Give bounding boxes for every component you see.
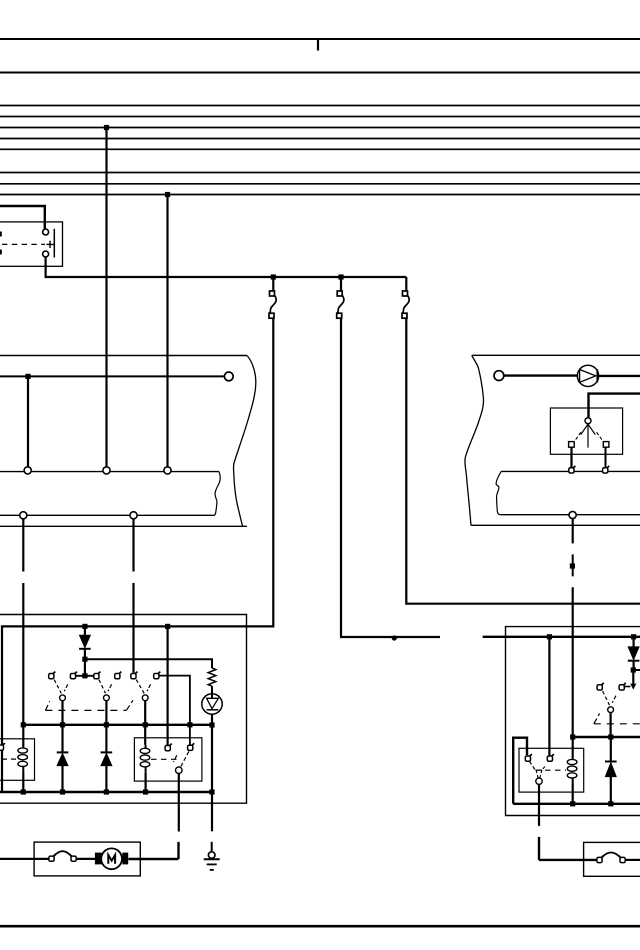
connector C1 inline bbox=[269, 291, 276, 318]
switch S1 arm dashes bbox=[54, 680, 61, 694]
box top edge bbox=[0, 355, 247, 357]
wire inside master switch bbox=[0, 375, 225, 377]
switch S4 arm dashes bbox=[603, 691, 610, 705]
diode D1 (down) bbox=[84, 626, 86, 635]
wire mid bus right bbox=[573, 736, 640, 738]
wire relay K4 pivot to motor right bbox=[538, 784, 540, 826]
node on wire at x=341 bbox=[338, 274, 343, 279]
wire bus mid bbox=[23, 724, 212, 726]
wire pivot S1 drop bbox=[61, 701, 63, 725]
wire pivot S2 drop bbox=[105, 701, 107, 725]
relay K3 contact 2 bbox=[188, 743, 195, 750]
circuit breaker CB1 bbox=[49, 854, 56, 861]
node on wire at x=273 bbox=[271, 274, 276, 279]
switch S3 arm dashes bbox=[136, 680, 144, 694]
box torn right edge bbox=[233, 356, 255, 527]
pin row 1 torn edge bbox=[496, 471, 501, 514]
wire feed to relay K1 bbox=[0, 206, 45, 229]
diode D5 (up) bbox=[610, 737, 612, 762]
door switch box (right, torn) bbox=[465, 355, 640, 525]
wire relay K3 pivot to motor bbox=[178, 773, 180, 831]
switch S3 contact left bbox=[131, 672, 138, 679]
relay K2 box bbox=[0, 739, 35, 781]
wire to diode circle bbox=[504, 374, 578, 376]
wire feed to key switch bbox=[589, 394, 640, 418]
wire bus bottom right bbox=[513, 803, 640, 805]
wire hook S3 right to relay K3 bbox=[159, 676, 190, 745]
wire bus B bbox=[0, 72, 640, 74]
box torn left edge bbox=[465, 355, 484, 525]
relay K3 pivot bbox=[176, 767, 183, 774]
node tap on bus 3 bbox=[104, 125, 109, 130]
wire out bbox=[625, 859, 640, 861]
wire drop to relay contact bbox=[548, 637, 550, 756]
node diode feed bbox=[82, 624, 87, 629]
wire breaker to motor bbox=[76, 858, 95, 860]
pin terminal of relay K1 (lower) bbox=[43, 251, 49, 257]
wire connector 1 to door switch box bbox=[2, 318, 273, 792]
motor M1 bbox=[101, 848, 122, 869]
node feed to relay K3 contact bbox=[165, 624, 170, 629]
window switch assembly box (lower left) bbox=[0, 615, 247, 804]
wire into box bbox=[0, 858, 49, 860]
pin row 2 line bbox=[501, 514, 640, 516]
wire drop left column (with break) bbox=[22, 519, 24, 572]
pin terminal bbox=[164, 467, 171, 474]
relay K4 box bbox=[519, 748, 584, 792]
pin terminal bbox=[103, 467, 110, 474]
switch S3 contact right bbox=[154, 672, 161, 679]
pin terminal left bbox=[494, 371, 504, 381]
wire drop to connector 2 bbox=[340, 277, 342, 291]
box outline bbox=[506, 627, 640, 816]
wire from relay K1 to connectors bbox=[46, 257, 407, 277]
switch S1 pivot bbox=[60, 695, 66, 701]
wire bus 6 bbox=[0, 172, 640, 174]
LED indicator circle bbox=[202, 694, 222, 714]
key switch arm arrow bbox=[581, 424, 596, 447]
arm arrow to contact bbox=[632, 670, 634, 684]
wire bus 3 bbox=[0, 127, 640, 129]
switch S2 contact right bbox=[115, 672, 122, 679]
switch S4 contact left bbox=[597, 683, 604, 690]
pin row 1 line bbox=[0, 471, 219, 473]
wire diode circle to right edge bbox=[599, 375, 640, 377]
node below diode D1 bbox=[82, 657, 87, 662]
relay K4 pivot bbox=[536, 778, 542, 784]
master switch box (left, torn) bbox=[0, 356, 256, 527]
switch S2 arm dashes bbox=[99, 680, 106, 694]
relay K3 arm dash bbox=[181, 752, 189, 768]
wire pivot S3 drop bbox=[144, 701, 146, 745]
pin row 2 line bbox=[0, 514, 214, 516]
relay K4 arm tip triangle bbox=[535, 769, 542, 771]
pin terminal row2 bbox=[20, 512, 27, 519]
wire bus bottom bbox=[0, 791, 212, 793]
relay K1 plate bar bbox=[53, 229, 55, 258]
pin terminal row2 bbox=[569, 511, 576, 518]
key switch dashes bbox=[576, 432, 582, 440]
switch S3 pivot bbox=[142, 695, 148, 701]
wire pivot S4 drop bbox=[609, 713, 611, 737]
node on elbow wire bbox=[392, 635, 397, 640]
node at switch center tap bbox=[82, 673, 87, 678]
wire drop to connector 3 bbox=[405, 277, 407, 291]
wire feed across bbox=[483, 636, 640, 638]
wire vertical drop from bus 8 to switch box bbox=[166, 195, 168, 468]
wire vertical drop from bus 3 to switch box bbox=[105, 128, 107, 468]
pin row 1 line bbox=[501, 470, 640, 472]
switch S4 contact right bbox=[619, 683, 626, 690]
relay K3 dashed linkage bbox=[151, 758, 177, 760]
wire connector 3 elbow to right edge bbox=[406, 318, 640, 603]
diode D3 (up) on S2 column bbox=[105, 725, 107, 753]
connector C2 inline bbox=[337, 291, 344, 318]
relay K3 box bbox=[134, 738, 202, 781]
node on inside wire bbox=[25, 374, 30, 379]
wire bus 4 bbox=[0, 138, 640, 140]
relay K1 dashed linkage bbox=[2, 243, 45, 245]
stub on bus A bbox=[317, 39, 319, 51]
wire connector 2 elbow bbox=[341, 318, 440, 637]
circuit breaker CB2 bbox=[597, 856, 604, 863]
page bottom border bbox=[0, 925, 640, 928]
switch S2 contact left bbox=[94, 672, 101, 679]
motor M2 box (right, cut) bbox=[584, 842, 640, 876]
resistor R1 bbox=[208, 668, 216, 686]
relay K4 contact 2 bbox=[547, 754, 554, 761]
linkage dashed rail bbox=[594, 723, 640, 725]
box bottom edge bbox=[471, 524, 640, 526]
wire bus 2 bbox=[0, 116, 640, 118]
wire bus 7 bbox=[0, 183, 640, 185]
ground G1 bbox=[204, 842, 220, 870]
box outline bbox=[0, 615, 247, 804]
diode D2 (up) on S1 column bbox=[61, 725, 63, 753]
relay K2 contact at edge bbox=[0, 743, 5, 750]
diode assembly circle bbox=[577, 365, 598, 386]
diode D4 (down) bbox=[632, 637, 634, 647]
wire drop from node to pin row bbox=[27, 376, 29, 467]
relay K2 coil bbox=[18, 745, 28, 773]
open terminal circle bbox=[224, 372, 233, 381]
window motor M1 box bbox=[0, 842, 140, 876]
wire drop second column (with break) bbox=[132, 519, 134, 572]
relay K1 (top left, cut off) bbox=[0, 206, 63, 266]
switch S4 pivot bbox=[608, 707, 614, 713]
wire contact drops bbox=[570, 447, 572, 467]
relay box (lower right) bbox=[483, 627, 640, 816]
relay K1 box bbox=[0, 222, 63, 266]
wire bus 8 bbox=[0, 194, 640, 196]
relay K4 dashed linkage bbox=[545, 769, 566, 771]
key switch contact squares bbox=[569, 442, 575, 448]
wire drop to relay K3 contact 1 bbox=[167, 626, 169, 745]
wire LED column to ground bbox=[211, 792, 213, 831]
wire bus 5 bbox=[0, 148, 640, 150]
pin terminal row2 bbox=[130, 512, 137, 519]
node with branch to edge bbox=[631, 667, 636, 672]
wire bus A (top) bbox=[0, 38, 640, 40]
box top edge bbox=[472, 354, 640, 356]
switch S2 pivot bbox=[104, 695, 110, 701]
linkage dashed rail bbox=[45, 709, 126, 711]
wire center tap bbox=[76, 675, 95, 677]
relay K1 plus sign bbox=[46, 241, 53, 248]
relay K3 coil bbox=[140, 745, 150, 773]
wire bus 1 bbox=[0, 105, 640, 107]
node tap on bus 8 bbox=[165, 192, 170, 197]
relay K4 contact 1 bbox=[525, 754, 532, 761]
box bottom edge bbox=[0, 525, 247, 527]
key switch sub box bbox=[550, 408, 622, 454]
wire L feed to relay contact bbox=[513, 738, 527, 804]
pin terminal of relay K1 (upper) bbox=[43, 229, 49, 235]
relay K1 plate fragments at page edge bbox=[0, 232, 2, 237]
pin terminal bbox=[24, 467, 31, 474]
relay K4 coil bbox=[572, 737, 574, 757]
wire drop to connector 1 bbox=[272, 277, 274, 291]
wire to resistor bbox=[85, 659, 212, 668]
pin row 1 torn edge bbox=[214, 472, 221, 516]
relay K4 arm dash bbox=[530, 762, 536, 771]
relay K3 contact 1 bbox=[165, 744, 172, 751]
relay K2 dashed linkage bbox=[2, 758, 18, 760]
switch S1 contact right bbox=[70, 672, 77, 679]
connector C3 inline bbox=[402, 291, 409, 318]
pin hooks row1 bbox=[569, 466, 576, 473]
key switch common pin bbox=[585, 418, 591, 424]
wire drop from right box with connector break bbox=[572, 519, 574, 544]
switch S1 contact left bbox=[49, 672, 56, 679]
